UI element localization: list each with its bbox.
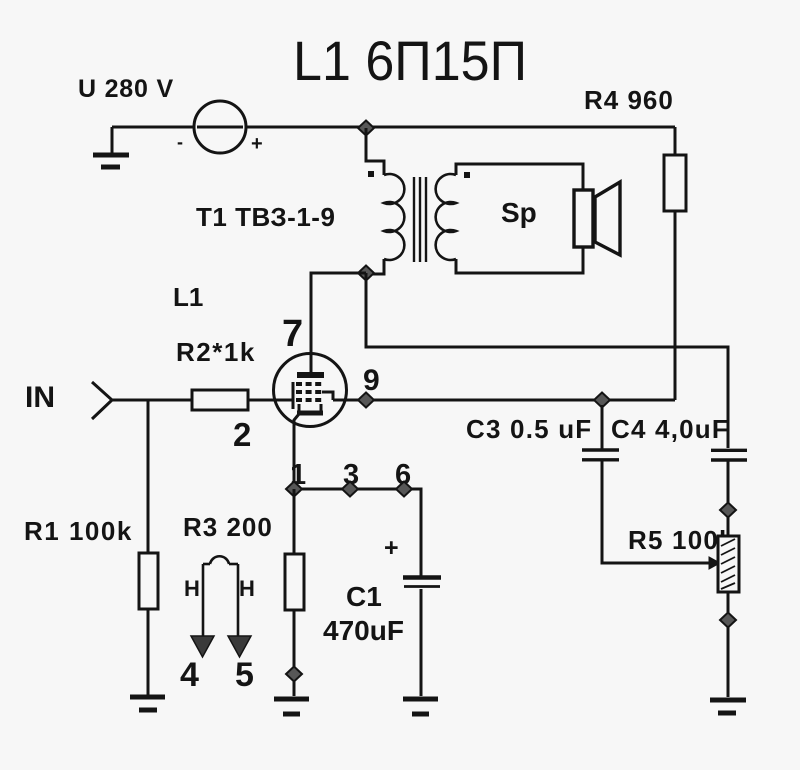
resistor R1 xyxy=(139,553,158,609)
resistor R4 xyxy=(664,155,686,211)
node above R5 xyxy=(720,503,736,518)
transformer phase dot secondary xyxy=(464,172,470,178)
potentiometer R5 xyxy=(718,536,739,592)
svg-text:C3 0.5 uF: C3 0.5 uF xyxy=(466,414,592,444)
svg-text:H: H xyxy=(184,576,200,601)
tube L1 6П15П envelope xyxy=(274,354,347,427)
svg-text:R2*1k: R2*1k xyxy=(176,337,256,367)
arrow heater pin 5 xyxy=(228,636,251,657)
speaker Sp xyxy=(574,182,620,255)
wire R1 to ground xyxy=(147,609,150,695)
wire C1 to ground xyxy=(420,589,423,696)
svg-text:5: 5 xyxy=(235,656,254,694)
transformer core xyxy=(414,177,426,262)
wire C3 to R5 wiper xyxy=(602,461,709,563)
svg-text:C4 4,0uF: C4 4,0uF xyxy=(611,414,729,444)
wire anode to primary bottom xyxy=(311,273,366,372)
capacitor C3 xyxy=(582,450,619,460)
svg-text:Т1 ТВЗ-1-9: Т1 ТВЗ-1-9 xyxy=(196,202,335,232)
node junction screen rail / C3 xyxy=(594,393,610,408)
tube cathode xyxy=(294,404,323,489)
heater symbol pins 4-5 xyxy=(203,556,238,636)
ground (under R1) xyxy=(130,697,165,710)
ground (under C1) xyxy=(403,699,438,714)
svg-text:R4 960: R4 960 xyxy=(584,85,674,115)
node pin 6 xyxy=(396,482,412,497)
wire primary bottom lead xyxy=(366,259,384,274)
node junction top rail / transformer primary xyxy=(358,121,374,136)
svg-text:R3 200: R3 200 xyxy=(183,512,273,542)
svg-text:2: 2 xyxy=(233,416,251,453)
voltage source B+ 280V xyxy=(177,101,263,155)
svg-text:+: + xyxy=(384,534,399,562)
ground (under R3) xyxy=(274,699,309,714)
tube grid g3 xyxy=(296,398,323,402)
wire primary top lead xyxy=(366,128,384,175)
wire ground to source xyxy=(112,126,194,129)
svg-text:U 280 V: U 280 V xyxy=(78,75,174,103)
svg-text:Sp: Sp xyxy=(501,197,537,228)
resistor R2 xyxy=(192,390,248,410)
ground (under R5) xyxy=(710,700,746,713)
wire C4 to R5 xyxy=(727,462,730,537)
transformer T1 primary winding xyxy=(384,174,404,260)
svg-text:H: H xyxy=(239,576,255,601)
wire anode node to C4 xyxy=(366,273,728,448)
wire R4 to screen node xyxy=(674,211,677,400)
svg-text:IN: IN xyxy=(25,381,55,414)
svg-text:7: 7 xyxy=(282,313,303,355)
tube grid rail xyxy=(292,382,295,409)
ground (top-left) xyxy=(93,127,129,167)
node pin 3 xyxy=(342,482,358,497)
wire input to R2 xyxy=(112,399,192,402)
wire R2 to grid xyxy=(248,399,293,402)
tube grid g2 xyxy=(296,390,323,394)
svg-text:C1: C1 xyxy=(346,581,382,612)
wire pin9 / screen rail xyxy=(333,399,675,402)
capacitor C4 xyxy=(711,450,747,460)
wire cathode pins rail xyxy=(294,489,421,577)
svg-text:+: + xyxy=(251,133,263,155)
resistor R3 xyxy=(285,554,304,610)
arrow heater pin 4 xyxy=(191,636,214,657)
wire top rail xyxy=(246,126,675,129)
node below R3 xyxy=(286,667,302,682)
wire top rail to R4 xyxy=(674,127,677,155)
transformer T1 secondary winding xyxy=(436,174,456,260)
wire R5 to ground xyxy=(727,592,730,697)
wire pin1 to R3 xyxy=(293,489,296,554)
wire C3 node down xyxy=(601,405,604,450)
svg-text:L1: L1 xyxy=(173,282,203,312)
arrow R5 wiper xyxy=(709,557,720,569)
svg-text:470uF: 470uF xyxy=(323,615,404,646)
node pin 1 xyxy=(286,482,302,497)
input connector xyxy=(92,382,112,419)
transformer phase dot primary xyxy=(368,171,374,177)
capacitor C1 xyxy=(403,578,441,587)
svg-text:-: - xyxy=(177,132,183,152)
wire secondary top lead xyxy=(456,164,583,190)
wire input node down to R1 xyxy=(147,400,150,553)
svg-text:L1 6П15П: L1 6П15П xyxy=(293,30,527,92)
tube screen tap to pin 9 xyxy=(322,392,333,400)
svg-text:R1 100k: R1 100k xyxy=(24,516,133,546)
node junction primary bottom / anode xyxy=(358,266,374,281)
tube anode plate xyxy=(297,372,324,378)
wire R3 to ground xyxy=(293,610,296,696)
node below R5 xyxy=(720,613,736,628)
tube grid g1 xyxy=(296,382,323,386)
node pin 9 xyxy=(358,393,374,408)
wire secondary bottom lead xyxy=(456,247,583,273)
svg-text:4: 4 xyxy=(180,656,199,694)
